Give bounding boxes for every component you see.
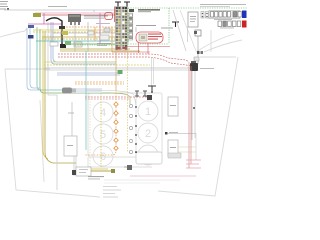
svg-text:1: 1 (145, 106, 151, 118)
svg-text:2: 2 (145, 128, 151, 140)
